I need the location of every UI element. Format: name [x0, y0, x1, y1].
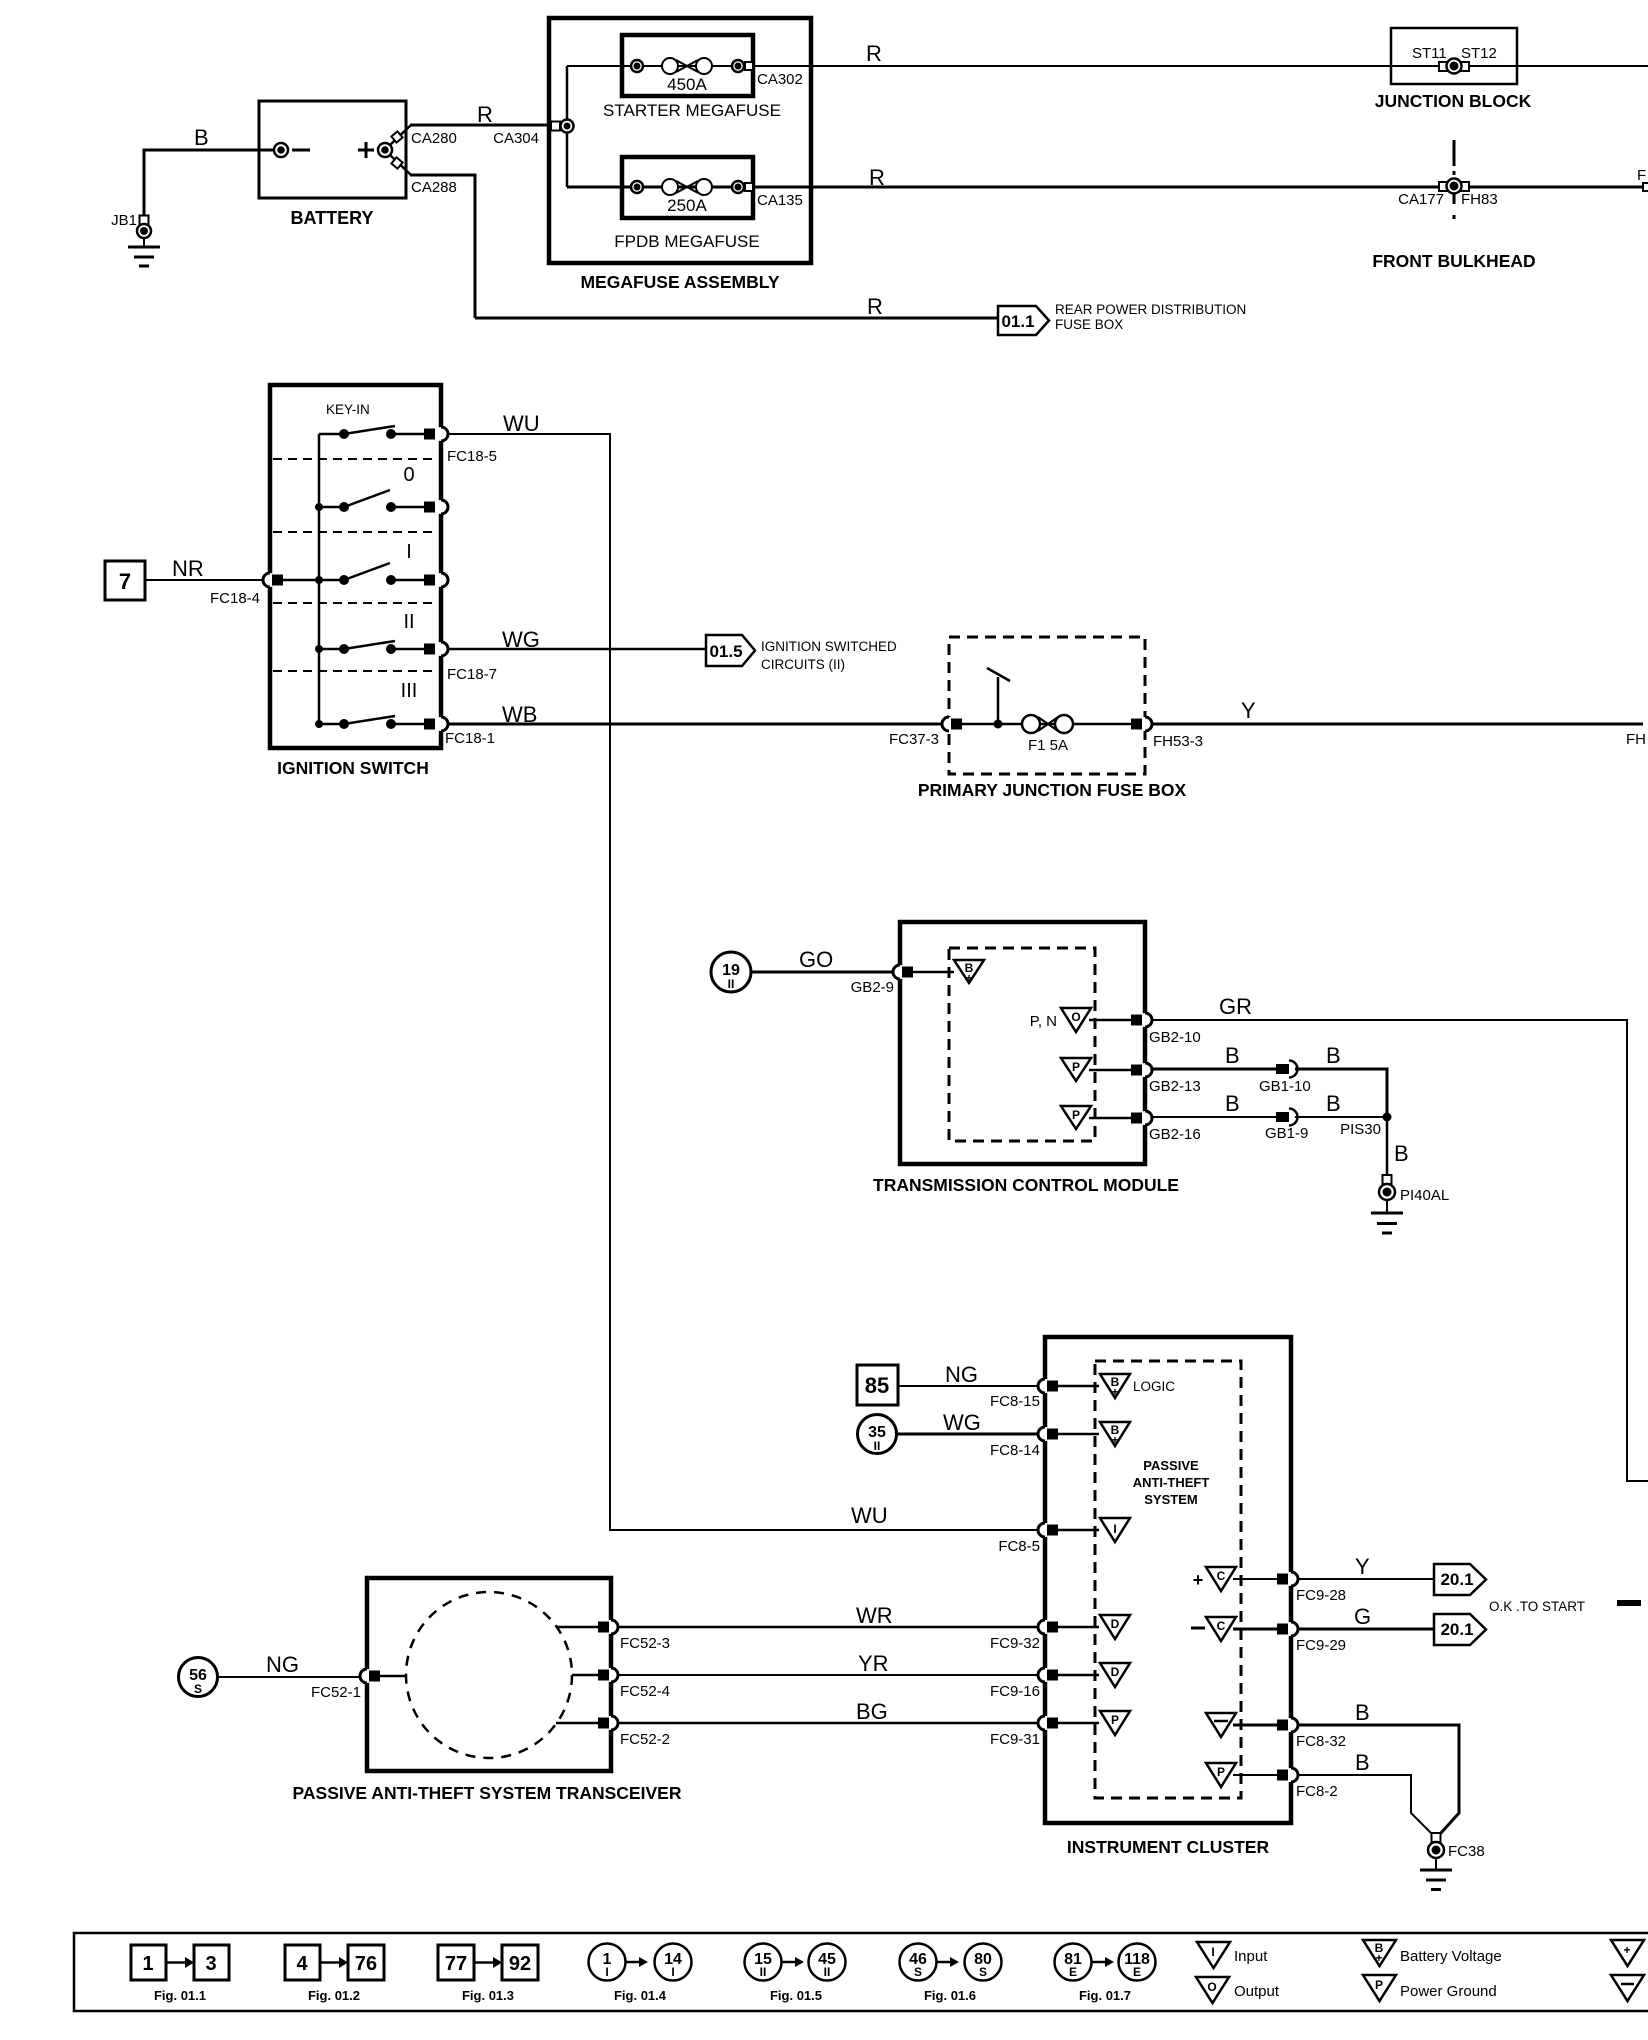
- svg-text:R: R: [867, 294, 883, 319]
- svg-text:+: +: [1375, 1951, 1382, 1965]
- svg-text:KEY-IN: KEY-IN: [326, 402, 370, 417]
- switch contact III: [315, 716, 425, 729]
- O.K. TO START label and bar: [1489, 1599, 1641, 1614]
- svg-text:S: S: [979, 1965, 987, 1979]
- legend fig 01.1: [131, 1945, 229, 2003]
- svg-text:P, N: P, N: [1030, 1013, 1057, 1030]
- svg-text:GB1-10: GB1-10: [1259, 1078, 1311, 1095]
- svg-text:WG: WG: [502, 627, 540, 652]
- power ground triangle P GB2-13: [1061, 1058, 1131, 1081]
- wire NG 56 to FC52-1: [218, 1652, 360, 1677]
- pin GB2-9: [851, 965, 954, 996]
- svg-text:Y: Y: [1355, 1554, 1370, 1579]
- svg-text:+: +: [1111, 1433, 1118, 1447]
- pin FC52-4: [572, 1668, 670, 1700]
- svg-text:NG: NG: [266, 1652, 299, 1677]
- svg-text:FC9-32: FC9-32: [990, 1635, 1040, 1652]
- svg-text:CA177: CA177: [1398, 191, 1444, 208]
- switch contact 0: [315, 490, 425, 512]
- wire R battery CA280 to megafuse CA304: [410, 102, 552, 147]
- svg-text:WU: WU: [503, 411, 540, 436]
- svg-text:CA288: CA288: [411, 179, 457, 196]
- node ST11-ST12 inline connector: [1439, 59, 1469, 74]
- svg-text:GB1-9: GB1-9: [1265, 1125, 1308, 1142]
- svg-text:7: 7: [119, 569, 131, 594]
- switch contact II: [315, 641, 425, 654]
- pin FC9-16: [990, 1668, 1099, 1700]
- node PIS30: [1340, 1113, 1391, 1139]
- pin GB2-13: [1131, 1063, 1201, 1095]
- svg-text:FC38: FC38: [1448, 1843, 1485, 1860]
- legend output triangle: [1196, 1977, 1280, 2003]
- svg-text:R: R: [866, 41, 882, 66]
- legend box: [74, 1933, 1648, 2011]
- node CA177-FH83 inline connector: [1398, 179, 1498, 209]
- svg-text:0: 0: [403, 464, 414, 486]
- pin FC8-2: [1277, 1768, 1338, 1800]
- svg-text:II: II: [824, 1965, 831, 1979]
- svg-text:P: P: [1072, 1060, 1080, 1074]
- wire NG 85 to FC8-15: [898, 1362, 1038, 1387]
- wire GO: [751, 947, 893, 972]
- legend fig 01.7: [1055, 1944, 1156, 2004]
- svg-text:Fig. 01.2: Fig. 01.2: [308, 1988, 360, 2003]
- svg-text:PI40AL: PI40AL: [1400, 1187, 1449, 1204]
- node GB1-9 inline connector: [1265, 1109, 1308, 1143]
- svg-text:FUSE BOX: FUSE BOX: [1055, 317, 1123, 332]
- svg-text:D: D: [1111, 1665, 1120, 1679]
- wire Y FC9-28 to 20.1: [1298, 1554, 1434, 1579]
- svg-text:C: C: [1217, 1619, 1226, 1633]
- svg-text:P: P: [1217, 1765, 1225, 1779]
- svg-text:CA135: CA135: [757, 192, 803, 209]
- wire R to rear power distribution fuse box: [475, 294, 997, 319]
- legend positive triangle: [1611, 1940, 1644, 1966]
- svg-text:MEGAFUSE ASSEMBLY: MEGAFUSE ASSEMBLY: [580, 272, 779, 292]
- svg-text:Y: Y: [1241, 698, 1256, 723]
- svg-text:B: B: [1394, 1141, 1409, 1166]
- svg-text:F: F: [1637, 167, 1646, 184]
- transmission control module: [873, 922, 1179, 1195]
- wire inside fuse box: [962, 723, 1131, 726]
- connector 7: [105, 561, 145, 600]
- wire B GB1-10 to PIS30: [1295, 1043, 1387, 1116]
- wire WR: [618, 1603, 1038, 1628]
- svg-text:E: E: [1133, 1965, 1141, 1979]
- wire WB: [448, 702, 942, 727]
- svg-text:S: S: [194, 1682, 202, 1696]
- ignition switch: [270, 385, 441, 778]
- svg-text:FC9-28: FC9-28: [1296, 1587, 1346, 1604]
- svg-text:C: C: [1217, 1569, 1226, 1583]
- legend negative triangle: [1611, 1975, 1644, 2001]
- svg-text:FC18-5: FC18-5: [447, 448, 497, 465]
- passive anti-theft system transceiver: [293, 1578, 682, 1803]
- svg-text:B: B: [194, 125, 209, 150]
- svg-text:BG: BG: [856, 1699, 888, 1724]
- ground JB1: [111, 212, 160, 266]
- svg-text:STARTER MEGAFUSE: STARTER MEGAFUSE: [603, 101, 781, 120]
- pin FC8-15: [990, 1379, 1099, 1410]
- svg-text:II: II: [403, 611, 414, 633]
- svg-text:B: B: [1355, 1700, 1370, 1725]
- node CA304 input connector: [551, 66, 574, 187]
- primary junction fuse box: [918, 637, 1187, 800]
- svg-text:LOGIC: LOGIC: [1133, 1379, 1175, 1394]
- starter megafuse 450A: [603, 35, 803, 120]
- svg-text:FC8-32: FC8-32: [1296, 1733, 1346, 1750]
- pin FC8-32: [1277, 1718, 1346, 1750]
- input triangle I: [1100, 1518, 1130, 1542]
- wire G FC9-29 to 20.1: [1298, 1604, 1434, 1629]
- pin FC18-7: [424, 642, 497, 683]
- svg-text:GR: GR: [1219, 994, 1252, 1019]
- svg-text:G: G: [1354, 1604, 1371, 1629]
- junction block: [1375, 28, 1532, 111]
- legend fig 01.4: [589, 1944, 692, 2004]
- pin FC18-4: [263, 573, 283, 587]
- svg-text:TRANSMISSION CONTROL MODULE: TRANSMISSION CONTROL MODULE: [873, 1175, 1179, 1195]
- svg-text:S: S: [914, 1965, 922, 1979]
- svg-text:JUNCTION BLOCK: JUNCTION BLOCK: [1375, 91, 1532, 111]
- svg-text:CA280: CA280: [411, 130, 457, 147]
- wire Y to right edge: [1152, 698, 1646, 748]
- power ground triangle P lower: [1206, 1763, 1277, 1787]
- svg-text:PASSIVE: PASSIVE: [1143, 1458, 1199, 1473]
- svg-text:76: 76: [355, 1953, 377, 1975]
- svg-text:Output: Output: [1234, 1983, 1280, 2000]
- svg-text:PRIMARY JUNCTION FUSE BOX: PRIMARY JUNCTION FUSE BOX: [918, 780, 1187, 800]
- svg-text:Battery Voltage: Battery Voltage: [1400, 1948, 1502, 1965]
- svg-text:B: B: [1326, 1043, 1341, 1068]
- wire WU ignition switch to instrument cluster: [448, 411, 1038, 1530]
- svg-text:WU: WU: [851, 1503, 888, 1528]
- coded signal triangle +C: [1193, 1567, 1277, 1591]
- off-page pointer 01.5 ignition switched circuits: [706, 635, 897, 672]
- svg-text:Power Ground: Power Ground: [1400, 1983, 1497, 2000]
- svg-text:B: B: [1225, 1091, 1240, 1116]
- svg-text:+: +: [1623, 1943, 1630, 1957]
- svg-text:FH: FH: [1626, 731, 1646, 748]
- svg-text:FC52-4: FC52-4: [620, 1683, 670, 1700]
- legend fig 01.2: [285, 1945, 384, 2003]
- instrument cluster: [1045, 1337, 1291, 1857]
- fuse F1 5A: [1022, 715, 1073, 754]
- pin row I: [424, 573, 448, 587]
- wire B FC8-32 to FC38: [1298, 1700, 1459, 1834]
- svg-text:I: I: [1211, 1945, 1214, 1959]
- svg-text:PASSIVE ANTI-THEFT SYSTEM TRAN: PASSIVE ANTI-THEFT SYSTEM TRANSCEIVER: [293, 1783, 682, 1803]
- svg-text:PIS30: PIS30: [1340, 1121, 1381, 1138]
- svg-text:77: 77: [445, 1953, 467, 1975]
- battery voltage triangle B+ TCM: [954, 960, 984, 985]
- svg-text:II: II: [874, 1439, 881, 1453]
- pin FC18-5: [424, 427, 497, 465]
- node GB1-10 inline connector: [1259, 1061, 1311, 1096]
- svg-text:B: B: [1355, 1750, 1370, 1775]
- battery voltage triangle B+ LOGIC: [1100, 1374, 1175, 1399]
- svg-text:CA302: CA302: [757, 71, 803, 88]
- wire WG 35 to FC8-14: [897, 1410, 1038, 1435]
- coded signal triangle -C: [1191, 1617, 1277, 1641]
- pin FC9-29: [1277, 1622, 1346, 1654]
- svg-text:WR: WR: [856, 1603, 893, 1628]
- svg-text:JB1: JB1: [111, 212, 137, 229]
- output triangle O with P, N: [1030, 1008, 1131, 1032]
- svg-text:I: I: [671, 1965, 674, 1979]
- svg-text:B: B: [1326, 1091, 1341, 1116]
- svg-text:92: 92: [509, 1953, 531, 1975]
- svg-text:20.1: 20.1: [1440, 1570, 1473, 1589]
- svg-text:I: I: [406, 541, 412, 563]
- svg-text:REAR POWER DISTRIBUTION: REAR POWER DISTRIBUTION: [1055, 302, 1246, 317]
- svg-text:4: 4: [296, 1953, 308, 1975]
- svg-text:IGNITION SWITCH: IGNITION SWITCH: [277, 758, 429, 778]
- off-page pointer 01.1 rear power distribution fuse box: [998, 302, 1246, 335]
- svg-text:FH53-3: FH53-3: [1153, 733, 1203, 750]
- svg-text:GB2-13: GB2-13: [1149, 1078, 1201, 1095]
- svg-text:FC9-29: FC9-29: [1296, 1637, 1346, 1654]
- wire B GB2-16 to GB1-9: [1152, 1091, 1276, 1117]
- svg-text:+: +: [1111, 1385, 1118, 1399]
- svg-text:F1 5A: F1 5A: [1028, 737, 1068, 754]
- svg-text:450A: 450A: [667, 75, 707, 94]
- switch inside primary junction fuse box: [987, 668, 1010, 729]
- svg-text:I: I: [1113, 1522, 1116, 1536]
- svg-text:Fig. 01.3: Fig. 01.3: [462, 1988, 514, 2003]
- ground FC38: [1420, 1833, 1485, 1890]
- off-page pointer 20.1 lower: [1434, 1614, 1486, 1645]
- svg-text:FC18-4: FC18-4: [210, 590, 260, 607]
- svg-text:Fig. 01.7: Fig. 01.7: [1079, 1988, 1131, 2003]
- svg-text:85: 85: [865, 1373, 889, 1398]
- legend power ground triangle: [1363, 1975, 1497, 2001]
- legend fig 01.5: [745, 1944, 846, 2004]
- svg-text:250A: 250A: [667, 196, 707, 215]
- svg-text:FH83: FH83: [1461, 191, 1498, 208]
- svg-text:YR: YR: [858, 1651, 889, 1676]
- svg-text:R: R: [869, 165, 885, 190]
- svg-text:IGNITION SWITCHED: IGNITION SWITCHED: [761, 639, 897, 654]
- wire B FC8-2 to FC38: [1298, 1750, 1432, 1834]
- legend fig 01.6: [900, 1944, 1002, 2004]
- wire R starter megafuse row: [567, 41, 1648, 66]
- svg-text:WG: WG: [943, 1410, 981, 1435]
- svg-text:WB: WB: [502, 702, 537, 727]
- svg-text:GB2-9: GB2-9: [851, 979, 894, 996]
- svg-text:FC9-16: FC9-16: [990, 1683, 1040, 1700]
- pin row 0: [424, 500, 448, 514]
- svg-text:01.5: 01.5: [709, 642, 742, 661]
- wire NR: [145, 556, 263, 607]
- svg-text:20.1: 20.1: [1440, 1620, 1473, 1639]
- svg-text:P: P: [1072, 1108, 1080, 1122]
- connector circle 19 II: [711, 952, 751, 992]
- svg-text:ST12: ST12: [1461, 45, 1497, 62]
- FPDB megafuse 250A: [614, 157, 803, 251]
- svg-text:FC9-31: FC9-31: [990, 1731, 1040, 1748]
- svg-text:CA304: CA304: [493, 130, 539, 147]
- battery voltage triangle B+: [1100, 1422, 1130, 1447]
- svg-text:II: II: [728, 977, 735, 991]
- svg-text:O.K .TO START: O.K .TO START: [1489, 1599, 1585, 1614]
- svg-text:CIRCUITS (II): CIRCUITS (II): [761, 657, 845, 672]
- wire CA288 battery to rear power distribution: [410, 175, 475, 318]
- power ground triangle P GB2-16: [1061, 1106, 1131, 1129]
- switch contact I: [283, 563, 425, 585]
- svg-text:O: O: [1207, 1980, 1216, 1994]
- svg-text:FC8-5: FC8-5: [998, 1538, 1040, 1555]
- svg-text:ANTI-THEFT: ANTI-THEFT: [1133, 1475, 1210, 1490]
- power ground triangle P: [1100, 1711, 1130, 1735]
- svg-text:FC52-2: FC52-2: [620, 1731, 670, 1748]
- ground PI40AL: [1371, 1175, 1449, 1233]
- svg-text:P: P: [1111, 1713, 1119, 1727]
- legend input triangle: [1197, 1942, 1268, 1968]
- svg-text:Input: Input: [1234, 1948, 1268, 1965]
- pin FC9-32: [990, 1620, 1099, 1652]
- wire YR: [618, 1651, 1038, 1676]
- ground sense triangle -: [1206, 1713, 1277, 1737]
- wire WG: [448, 627, 706, 652]
- svg-text:E: E: [1069, 1965, 1077, 1979]
- svg-text:III: III: [401, 680, 418, 702]
- pin GB2-10: [1131, 1013, 1201, 1046]
- wire B PIS30 to PI40AL: [1387, 1117, 1409, 1176]
- svg-text:FRONT BULKHEAD: FRONT BULKHEAD: [1372, 251, 1535, 271]
- wire B battery negative to JB1 ground: [144, 125, 273, 216]
- svg-text:FC18-1: FC18-1: [445, 730, 495, 747]
- svg-text:INSTRUMENT CLUSTER: INSTRUMENT CLUSTER: [1067, 1837, 1270, 1857]
- svg-text:NR: NR: [172, 556, 204, 581]
- connector circle 56 S: [179, 1658, 218, 1697]
- svg-text:Fig. 01.4: Fig. 01.4: [614, 1988, 667, 2003]
- svg-text:GB2-16: GB2-16: [1149, 1126, 1201, 1143]
- data triangle D: [1100, 1663, 1130, 1687]
- wire ignition switch common rail: [318, 434, 321, 724]
- off-page pointer 20.1 upper: [1434, 1564, 1486, 1595]
- svg-text:FC8-15: FC8-15: [990, 1393, 1040, 1410]
- svg-text:1: 1: [142, 1953, 153, 1975]
- connector circle 35 II: [858, 1415, 897, 1454]
- svg-text:R: R: [477, 102, 493, 127]
- svg-text:GO: GO: [799, 947, 833, 972]
- svg-text:+: +: [965, 971, 972, 985]
- megafuse assembly: [549, 18, 811, 292]
- svg-text:P: P: [1375, 1978, 1383, 1992]
- svg-text:Fig. 01.6: Fig. 01.6: [924, 1988, 976, 2003]
- switch contact KEY-IN: [319, 426, 425, 439]
- svg-text:FC37-3: FC37-3: [889, 731, 939, 748]
- connector 85: [857, 1365, 898, 1405]
- pin FC8-5: [998, 1523, 1099, 1555]
- pin FC52-2: [556, 1716, 670, 1748]
- svg-text:01.1: 01.1: [1001, 312, 1034, 331]
- svg-text:FC52-3: FC52-3: [620, 1635, 670, 1652]
- svg-text:FC52-1: FC52-1: [311, 1684, 361, 1701]
- pin FC37-3: [889, 717, 962, 748]
- svg-text:FC18-7: FC18-7: [447, 666, 497, 683]
- svg-text:B: B: [1225, 1043, 1240, 1068]
- wire BG: [618, 1699, 1038, 1724]
- pin FC9-31: [990, 1716, 1099, 1748]
- pin FC8-14: [990, 1427, 1099, 1459]
- pin GB2-16: [1131, 1111, 1201, 1143]
- svg-text:II: II: [760, 1965, 767, 1979]
- svg-text:GB2-10: GB2-10: [1149, 1029, 1201, 1046]
- wire B GB1-9 to PIS30: [1295, 1091, 1387, 1117]
- svg-text:Fig. 01.1: Fig. 01.1: [154, 1988, 206, 2003]
- svg-text:FPDB MEGAFUSE: FPDB MEGAFUSE: [614, 232, 759, 251]
- legend battery voltage triangle: [1363, 1940, 1502, 1966]
- battery: [259, 101, 411, 228]
- svg-text:FC8-14: FC8-14: [990, 1442, 1040, 1459]
- wire B GB2-13 to GB1-10: [1152, 1043, 1276, 1069]
- node clipped connector at right edge: [1637, 167, 1648, 191]
- legend fig 01.3: [438, 1945, 538, 2003]
- pin FH53-3: [1131, 717, 1203, 750]
- svg-text:3: 3: [205, 1953, 216, 1975]
- svg-text:+: +: [1193, 1570, 1204, 1590]
- svg-text:FC8-2: FC8-2: [1296, 1783, 1338, 1800]
- svg-text:BATTERY: BATTERY: [291, 208, 374, 228]
- svg-text:I: I: [605, 1965, 608, 1979]
- svg-text:NG: NG: [945, 1362, 978, 1387]
- svg-text:D: D: [1111, 1617, 1120, 1631]
- data triangle D: [1100, 1615, 1130, 1639]
- svg-text:O: O: [1071, 1010, 1080, 1024]
- svg-text:SYSTEM: SYSTEM: [1144, 1492, 1197, 1507]
- svg-text:Fig. 01.5: Fig. 01.5: [770, 1988, 822, 2003]
- pin FC9-28: [1277, 1572, 1346, 1604]
- pin FC18-1: [424, 717, 495, 747]
- wire R FPDB megafuse row: [567, 165, 1643, 190]
- svg-text:ST11: ST11: [1412, 45, 1447, 62]
- pin FC52-1: [311, 1669, 406, 1701]
- front bulkhead boundary: [1372, 140, 1535, 271]
- wire GR to right edge: [1152, 994, 1648, 1481]
- pin FC52-3: [556, 1620, 670, 1652]
